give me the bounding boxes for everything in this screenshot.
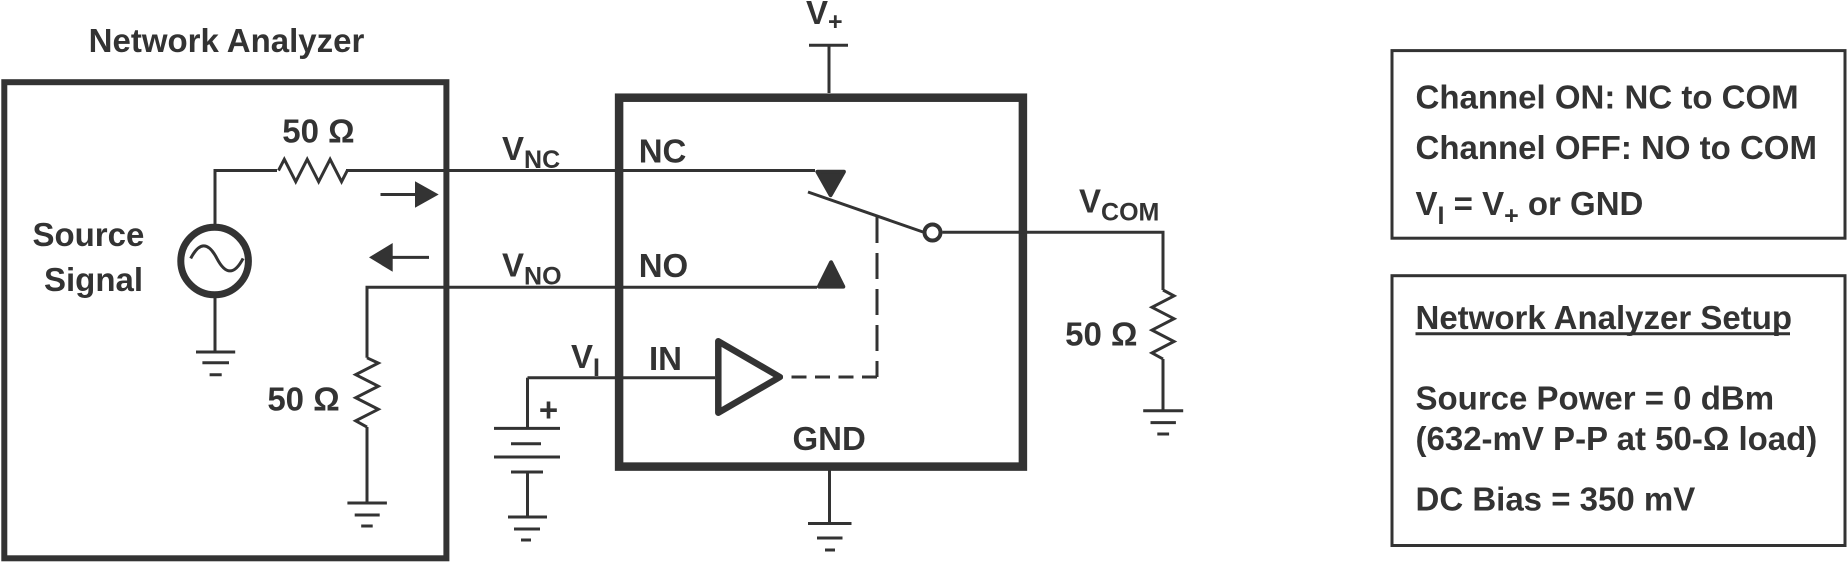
svg-text:IN: IN	[649, 340, 682, 377]
svg-text:Network Analyzer Setup: Network Analyzer Setup	[1416, 299, 1793, 336]
svg-text:50 Ω: 50 Ω	[1065, 316, 1137, 353]
svg-text:Channel OFF: NO to COM: Channel OFF: NO to COM	[1416, 129, 1817, 166]
svg-text:NO: NO	[639, 247, 689, 284]
svg-text:VCOM: VCOM	[1079, 183, 1159, 227]
svg-text:(632-mV P-P at 50-Ω load): (632-mV P-P at 50-Ω load)	[1416, 420, 1818, 457]
svg-text:Channel ON: NC to COM: Channel ON: NC to COM	[1416, 79, 1799, 116]
svg-text:Signal: Signal	[44, 261, 143, 298]
svg-text:V+: V+	[806, 0, 843, 36]
svg-text:NC: NC	[639, 133, 687, 170]
svg-text:GND: GND	[793, 420, 866, 457]
svg-text:VNC: VNC	[502, 130, 560, 174]
svg-text:50 Ω: 50 Ω	[267, 381, 339, 418]
svg-text:Source Power = 0 dBm: Source Power = 0 dBm	[1416, 380, 1775, 417]
svg-text:50 Ω: 50 Ω	[282, 113, 354, 150]
svg-text:VI: VI	[571, 338, 600, 382]
svg-text:DC Bias = 350 mV: DC Bias = 350 mV	[1416, 481, 1696, 518]
svg-text:+: +	[539, 391, 558, 428]
svg-text:VNO: VNO	[502, 247, 562, 291]
svg-text:Source: Source	[32, 216, 144, 253]
svg-text:Network Analyzer: Network Analyzer	[89, 22, 365, 59]
svg-text:VI = V+ or GND: VI = V+ or GND	[1416, 185, 1644, 230]
